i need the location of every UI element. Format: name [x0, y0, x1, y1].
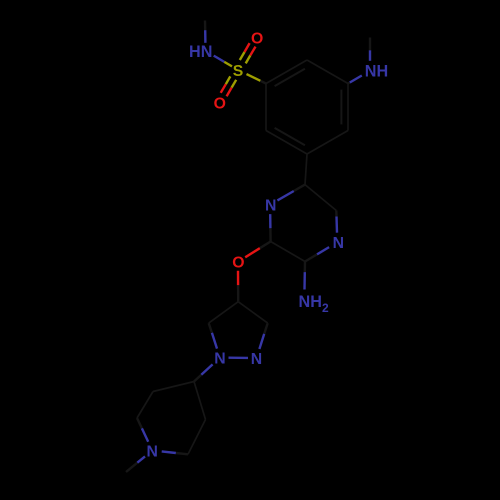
atom label N (sulfonamide NH) [189, 43, 212, 61]
bond C3-NH2 (amino group) [303, 262, 306, 290]
bond N-CH3 (piperidine N-methyl) [126, 456, 145, 472]
piperidine bond N1-C6 [162, 451, 188, 454]
benzene aromatic inner line C5-C6 [275, 128, 305, 145]
atom label N4 (pyrazine) [333, 235, 344, 252]
atom label N1 (pyrazine) [265, 198, 276, 215]
pyrazole bond N1-N2 [229, 357, 249, 360]
piperidine bond C5-C4 [194, 382, 206, 420]
bond O-C4 (ether to pyrazole) [237, 271, 240, 302]
benzene bond C3-C4 [347, 84, 349, 131]
atom label O (sulfonyl lower) [214, 96, 226, 113]
svg-text:N: N [333, 235, 344, 252]
atom label N (piperidine) [147, 444, 158, 461]
svg-text:NH: NH [299, 293, 322, 311]
benzene aromatic inner line C3-C4 [340, 90, 342, 125]
atom label NH2 (amino) [299, 293, 330, 315]
svg-text:O: O [232, 255, 244, 272]
pyrazine bond C2-N1 [269, 214, 272, 241]
svg-text:2: 2 [322, 301, 329, 315]
bond S-C1 (S to benzene) [247, 74, 267, 83]
svg-text:HN: HN [189, 43, 212, 61]
atom label O (ether) [232, 255, 244, 272]
piperidine bond C2-N1 [137, 418, 148, 442]
atom label N1 (pyrazole) [214, 351, 225, 368]
benzene bond C5-C6 [266, 131, 307, 155]
double bond S=O (lower) [221, 76, 237, 96]
svg-text:N: N [251, 351, 262, 368]
piperidine bond C6-C5 [188, 420, 206, 455]
atom label O (sulfonyl upper) [251, 30, 263, 47]
bond CH3-N (sulfonamide N-methyl) [204, 21, 207, 43]
pyrazine bond C5-N4 [335, 211, 338, 233]
piperidine bond C4-C3 [153, 382, 194, 392]
svg-text:N: N [265, 198, 276, 215]
pyrazine bond N1-C6 [277, 185, 305, 201]
benzene bond C4-C5 [307, 131, 348, 155]
pyrazole bond C3-N2 [259, 323, 267, 349]
svg-text:S: S [233, 63, 244, 80]
svg-text:NH: NH [365, 63, 388, 81]
bond benzene C5 - pyrazine C6 (biaryl link) [305, 154, 307, 185]
atom label N2 (pyrazole) [251, 351, 262, 368]
bond N-CH3 (methylamino methyl) [369, 38, 371, 61]
pyrazole bond C5-C4 [209, 302, 239, 323]
benzene bond C6-C1 [265, 84, 267, 131]
benzene bond C2-C3 [307, 60, 348, 84]
pyrazole bond C4-C3 [238, 302, 268, 323]
piperidine bond C3-C2 [137, 392, 153, 419]
pyrazine bond C3-C2 [271, 242, 305, 262]
benzene bond C1-C2 [266, 60, 307, 84]
pyrazole bond N1-C5 [209, 323, 217, 349]
benzene aromatic inner line C1-C2 [275, 69, 305, 86]
double bond S=O (upper) [240, 43, 256, 63]
bond C2-O (ether link) [245, 242, 270, 258]
bond N-S (sulfonamide) [214, 56, 232, 67]
pyrazine bond C6-C5 [305, 185, 336, 211]
bond pyrazole N1 - piperidine C4 [194, 364, 213, 381]
atom label N (methylamino NH) [365, 63, 388, 81]
svg-text:N: N [147, 444, 158, 461]
pyrazine bond N4-C3 [305, 247, 329, 261]
svg-text:N: N [214, 351, 225, 368]
atom label S (sulfonyl) [233, 63, 244, 80]
svg-text:O: O [251, 30, 263, 47]
svg-text:O: O [214, 96, 226, 113]
bond C3-N (benzene to methylamino N) [348, 76, 362, 84]
